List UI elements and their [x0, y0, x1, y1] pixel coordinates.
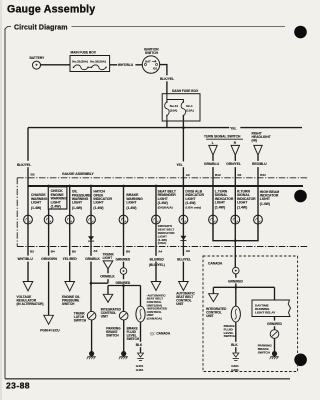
svg-text:(1.4W): (1.4W): [185, 201, 195, 205]
svg-text:Circuit Diagram: Circuit Diagram: [14, 24, 68, 31]
svg-text:LIGHT: LIGHT: [51, 200, 62, 204]
ground at trunk latch switch: [91, 320, 93, 348]
svg-text:SWITCH: SWITCH: [224, 334, 237, 338]
svg-text:No.31(30A): No.31(30A): [72, 60, 88, 64]
power bus inside gauge assembly: [28, 185, 303, 187]
connector to integrated control unit canada: [212, 287, 214, 293]
svg-text:(CANADA): (CANADA): [147, 317, 162, 321]
svg-text:L: L: [212, 141, 214, 145]
svg-text:CANADA: CANADA: [208, 261, 223, 265]
svg-text:G451: G451: [231, 368, 239, 372]
diode in alb indicator column: [180, 236, 186, 240]
wire BLK to ground G401: [140, 322, 142, 352]
svg-text:BLK: BLK: [136, 343, 143, 347]
svg-text:UNIT: UNIT: [101, 315, 108, 319]
wire left fuse output to horizontal rail: [166, 116, 168, 122]
svg-text:B4: B4: [51, 249, 55, 253]
svg-text:PGM-FI ECU: PGM-FI ECU: [40, 328, 60, 332]
fuse No.1 (10A): [181, 102, 186, 116]
pin A3 and wire BLU/YEL to seat belt control unit: [182, 247, 184, 283]
horizontal BLK/YEL power rail: [28, 127, 302, 129]
wire ORN/BLK trunk light to junction: [107, 269, 109, 283]
right turn signal indicator lamp: [231, 215, 240, 224]
diode in hatch open column: [88, 236, 94, 240]
svg-text:SWITCH: SWITCH: [145, 51, 159, 55]
svg-text:UNIT: UNIT: [206, 314, 213, 318]
svg-text:BLK/YEL: BLK/YEL: [160, 77, 174, 81]
oil pressure warning light lamp: [65, 215, 74, 224]
check engine warning light column wire: [48, 186, 50, 247]
svg-text:BLK/YEL: BLK/YEL: [17, 163, 31, 167]
svg-text:LIGHT: LIGHT: [158, 197, 169, 201]
svg-text:+: +: [35, 63, 38, 68]
earth ground G401 G451 canada: [235, 352, 237, 354]
canada circuit junction: [213, 286, 274, 288]
svg-text:G451: G451: [136, 368, 144, 372]
svg-text:UNIT: UNIT: [176, 302, 183, 306]
svg-text:B6: B6: [126, 249, 130, 253]
dash fuse box: [162, 94, 200, 121]
wire BLK to ground canada: [235, 322, 237, 352]
pin A5 and wire GRN/BLK to trunk latch switch: [90, 247, 92, 312]
alb indicator light column wire: [182, 186, 184, 247]
pin B5 and wire YEL/RED to oil pressure switch: [69, 247, 71, 283]
right turn signal indicator column wire: [234, 186, 236, 241]
svg-text:GRN/RED: GRN/RED: [228, 279, 243, 283]
svg-text:WHT/BLU: WHT/BLU: [118, 63, 134, 67]
left turn signal indicator column wire: [212, 186, 214, 224]
connector from right headlight: [254, 145, 262, 155]
svg-text:(1.4W): (1.4W): [93, 206, 103, 210]
ground at parking brake switch: [123, 320, 125, 348]
svg-text:(1.4W): (1.4W): [237, 205, 247, 209]
svg-text:GRN/ORN: GRN/ORN: [41, 257, 57, 261]
charge warning light column wire: [27, 186, 29, 247]
svg-text:IG1: IG1: [153, 67, 158, 71]
svg-text:YEL/RED: YEL/RED: [63, 257, 78, 261]
battery B1: [33, 61, 41, 69]
svg-text:WHT/BLU: WHT/BLU: [18, 257, 34, 261]
svg-text:LIGHT RELAY: LIGHT RELAY: [255, 311, 276, 315]
svg-text:SWITCH: SWITCH: [258, 350, 271, 354]
svg-text:(IN ALTERNATOR): (IN ALTERNATOR): [17, 302, 44, 306]
connector to automatic seat belt control unit / integrated control unit: [151, 282, 161, 291]
wire GRN/RED connector to junction: [123, 274, 125, 311]
svg-text:LIGHT: LIGHT: [31, 201, 42, 205]
svg-text:A2: A2: [186, 173, 190, 177]
brake warning light column wire: [123, 186, 125, 247]
check engine label box: [48, 187, 67, 209]
connector from turn signal switch L: [209, 145, 217, 155]
ground bus for turn and high beam lamps: [213, 224, 258, 241]
svg-text:A5: A5: [93, 249, 97, 253]
page edge marker dot bottom: [294, 354, 307, 367]
svg-text:(10A): (10A): [186, 109, 194, 113]
svg-text:(1.4W): (1.4W): [260, 202, 270, 206]
svg-text:B2: B2: [30, 249, 34, 253]
svg-text:(DX(KA)A): (DX(KA)A): [158, 206, 173, 210]
svg-text:B12: B12: [215, 173, 221, 177]
svg-text:LIGHT: LIGHT: [185, 197, 196, 201]
svg-text:A3: A3: [186, 249, 190, 253]
check engine warning light lamp: [44, 215, 53, 224]
hatch open indicator light lamp: [87, 215, 96, 224]
svg-text:GRN/RED: GRN/RED: [116, 281, 131, 285]
svg-text:LIGHT: LIGHT: [93, 201, 104, 205]
pin A4 and wire BLU/RED to seat belt control unit: [155, 247, 157, 283]
connector to engine oil pressure switch: [65, 282, 75, 292]
svg-text:BLK: BLK: [231, 343, 238, 347]
svg-text:GRN/BLU: GRN/BLU: [204, 162, 220, 166]
svg-text:A4: A4: [158, 249, 162, 253]
svg-text:No.14: No.14: [170, 104, 179, 108]
alb indicator light lamp: [179, 215, 188, 224]
svg-text:B3: B3: [31, 172, 35, 176]
svg-text:DASH FUSE BOX: DASH FUSE BOX: [172, 89, 199, 93]
svg-text:BLU/RED: BLU/RED: [150, 257, 165, 261]
svg-text:B11: B11: [260, 173, 266, 177]
brake fluid level switch: [140, 286, 142, 307]
wire RED/BLU headlight to pin B11: [257, 155, 259, 186]
connector to PGM-FI ECU: [44, 315, 54, 324]
svg-text:23-88: 23-88: [6, 381, 30, 391]
canada option dashed box: [203, 256, 298, 372]
svg-text:BLU/YEL: BLU/YEL: [177, 257, 191, 261]
svg-text:B5: B5: [72, 249, 76, 253]
page edge marker dot middle: [294, 190, 307, 203]
seat belt reminder light column wire: [155, 186, 157, 247]
svg-text:TURN SIGNAL SWITCH: TURN SIGNAL SWITCH: [204, 134, 241, 138]
svg-text:GRN/RED: GRN/RED: [116, 257, 131, 261]
connector to voltage regulator: [23, 282, 33, 292]
svg-text:BATTERY: BATTERY: [30, 56, 46, 60]
svg-text:YEL: YEL: [177, 163, 183, 167]
junction trunk light wire: [91, 282, 108, 284]
svg-text:ORN/BLK: ORN/BLK: [100, 275, 115, 279]
svg-text:(1.4W): (1.4W): [215, 205, 225, 209]
svg-text:(USA): (USA): [158, 241, 166, 245]
earth ground G401 G451: [140, 352, 142, 354]
svg-text:No.1: No.1: [186, 104, 193, 108]
svg-text:(HI): (HI): [252, 139, 258, 143]
svg-text:SWITCH: SWITCH: [74, 319, 87, 323]
svg-text:RED/BLU: RED/BLU: [252, 162, 267, 166]
svg-text:LIGHT: LIGHT: [126, 201, 137, 205]
high beam indicator lamp: [254, 215, 263, 224]
pin B6 and wire GRN/RED to brake switches: [123, 247, 125, 268]
wire battery to main fuse box: [41, 64, 71, 66]
wire from turn ground bus into canada box: [234, 241, 236, 268]
svg-text:(1.4W): (1.4W): [126, 206, 136, 210]
svg-text:B1: B1: [238, 173, 242, 177]
left turn signal indicator lamp: [209, 215, 218, 224]
svg-text:No.32(15A): No.32(15A): [90, 60, 106, 64]
brake warning light lamp: [119, 215, 128, 224]
svg-text:BAT: BAT: [145, 59, 151, 63]
parking brake switch canada: [270, 330, 279, 339]
daytime running light relay: [274, 287, 276, 300]
dash fuse box internal feed wire: [167, 94, 184, 102]
charge warning light lamp: [24, 215, 33, 224]
wire GRN/RED canada connector to junction: [235, 274, 237, 306]
hatch open indicator light column wire: [90, 186, 92, 247]
svg-text:LIGHT: LIGHT: [260, 197, 271, 201]
pin B4 and wire GRN/ORN to PGM-FI ECU: [48, 247, 50, 316]
brake fluid level switch canada: [231, 306, 240, 322]
main fuse box: [70, 56, 110, 72]
svg-text:SWITCH: SWITCH: [62, 302, 75, 306]
svg-text:GRN/RED: GRN/RED: [267, 322, 282, 326]
ground at parking brake switch canada: [274, 338, 276, 348]
svg-text:YEL: YEL: [230, 126, 236, 130]
svg-text:GRN/YEL: GRN/YEL: [226, 162, 241, 166]
oil pressure warning light column wire: [69, 186, 71, 247]
svg-text:MAIN FUSE BOX: MAIN FUSE BOX: [71, 51, 97, 55]
trunk latch switch: [87, 311, 96, 320]
svg-text:(1.4W): (1.4W): [31, 206, 41, 210]
junction right fuse and rail: [182, 116, 184, 128]
wire ignition switch to dash fuse box BLK/YEL: [160, 65, 167, 94]
seat belt reminder light lamp: [152, 215, 161, 224]
in-line connector canada: [233, 267, 240, 274]
svg-text:Gauge Assembly: Gauge Assembly: [7, 4, 95, 16]
svg-text:(10A): (10A): [170, 109, 178, 113]
svg-text:(BLU/YEL): (BLU/YEL): [149, 263, 165, 267]
wire GRN/RED relay to parking brake switch canada: [274, 317, 276, 330]
svg-text:LIGHT: LIGHT: [103, 256, 113, 260]
wire rail down-left to gauge pin B3 BLK/YEL: [27, 128, 29, 186]
pin B2 and wire WHT/BLU to voltage regulator: [27, 247, 29, 283]
svg-text:LIGHT: LIGHT: [237, 201, 248, 205]
svg-text:(1.4W): (1.4W): [72, 206, 82, 210]
svg-text:LIGHT: LIGHT: [215, 201, 226, 205]
svg-text:SWITCH: SWITCH: [127, 337, 140, 341]
wire GRN/BLU turn L to pin B12: [212, 155, 214, 186]
connector to integrated control unit: [107, 286, 109, 295]
page edge marker dot top: [294, 26, 307, 39]
parking brake switch: [119, 311, 128, 320]
connector from turn signal switch R: [231, 145, 239, 155]
connector to automatic seat belt control unit: [179, 282, 189, 291]
wire WHT/BLU fuse box to ignition switch: [110, 64, 143, 66]
wire GRN/YEL turn R to pin B1: [234, 155, 236, 186]
svg-text:GAUGE ASSEMBLY: GAUGE ASSEMBLY: [62, 172, 95, 176]
svg-text:(1.4W): (1.4W): [51, 205, 61, 209]
outer section frame with Circuit Diagram label: [5, 27, 11, 379]
ignition switch: [142, 56, 159, 73]
high beam indicator column wire: [257, 186, 259, 224]
svg-text:GRN/BLK: GRN/BLK: [85, 257, 100, 261]
svg-text:(1.4W): (1.4W): [158, 201, 168, 205]
fuse No.14 (10A): [166, 100, 168, 103]
svg-text:SWITCH: SWITCH: [106, 334, 119, 338]
in-line connector on brake warning wire: [120, 268, 127, 275]
svg-text:LIGHT: LIGHT: [72, 201, 83, 205]
wire rail down to gauge pin A2 YEL: [182, 128, 184, 186]
svg-text:(USA only): (USA only): [185, 206, 201, 210]
brake circuit junction: [108, 285, 141, 287]
svg-text:( ) : CANADA: ( ) : CANADA: [151, 332, 171, 336]
